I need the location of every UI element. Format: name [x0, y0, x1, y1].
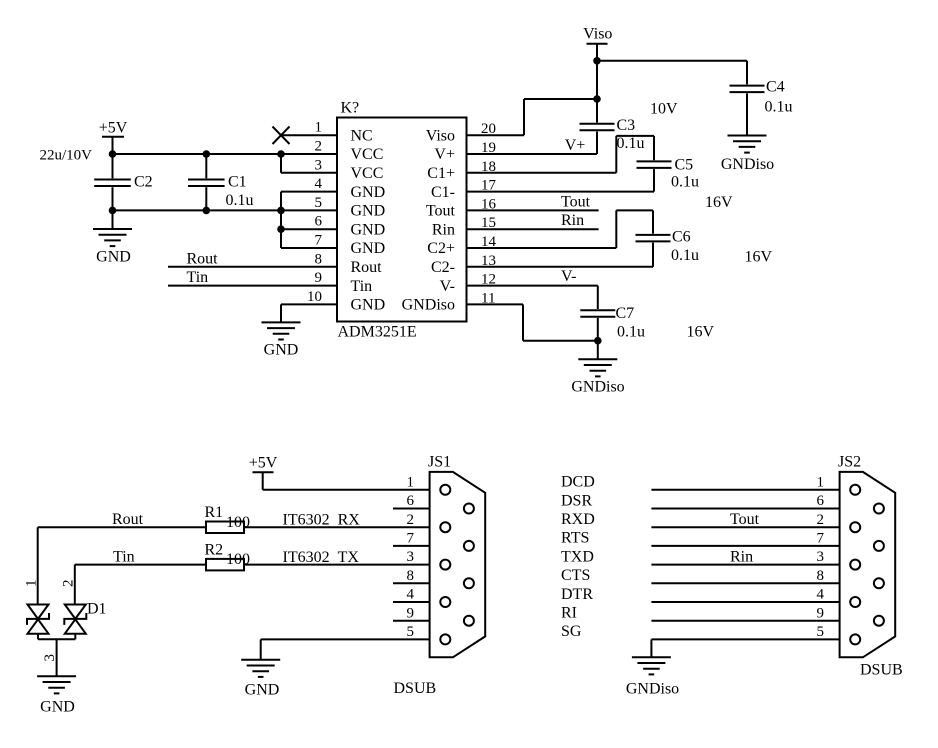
capacitor C6: [636, 210, 700, 266]
wire JS1 pin9 stub: [393, 620, 430, 622]
svg-text:Rout: Rout: [351, 259, 383, 276]
wire pin1: [281, 134, 337, 136]
svg-text:1: 1: [23, 580, 39, 588]
svg-text:6: 6: [315, 214, 323, 230]
svg-text:10V: 10V: [650, 101, 678, 118]
svg-text:2: 2: [315, 139, 323, 155]
svg-text:7: 7: [315, 233, 323, 249]
ground GNDiso (under C7): [571, 359, 624, 395]
svg-text:R1: R1: [205, 504, 224, 521]
node junction Viso: [593, 57, 601, 65]
power +5V (JS1): [249, 454, 278, 490]
svg-text:0.1u: 0.1u: [617, 323, 645, 340]
wire pin11 drop: [522, 304, 524, 340]
node junction pin5 rail: [277, 207, 285, 215]
wire GND bottom rail: [113, 209, 282, 211]
pin circle JS2-5: [850, 634, 860, 644]
node junction C2 top: [109, 150, 117, 158]
svg-text:Rin: Rin: [432, 221, 455, 238]
svg-text:3: 3: [42, 654, 58, 662]
resistor R2: [205, 542, 251, 571]
wire VCC top rail: [113, 153, 282, 155]
svg-text:ADM3251E: ADM3251E: [338, 324, 417, 341]
node junction C1 bottom: [203, 207, 211, 215]
svg-text:GND: GND: [40, 698, 75, 715]
pin circle JS2-6: [874, 504, 884, 514]
wire pin10: [281, 303, 337, 305]
power +5V (top left): [99, 120, 128, 155]
wire CTS to JS2 pin8: [651, 582, 839, 584]
svg-text:GND: GND: [245, 682, 280, 699]
node junction C2 bottom: [109, 207, 117, 215]
svg-text:VCC: VCC: [351, 165, 384, 182]
svg-text:DSR: DSR: [561, 492, 592, 509]
svg-text:DSUB: DSUB: [860, 662, 903, 679]
ground GNDiso (JS2): [626, 657, 679, 697]
wire pin4: [281, 191, 337, 193]
wire SG drop to ground: [650, 639, 652, 657]
op-amp U1 : IC body K? ADM3251E: [337, 118, 467, 322]
pin circle JS2-2: [850, 522, 860, 532]
svg-text:GND: GND: [351, 297, 386, 314]
wire pin13 C2-: [467, 266, 654, 268]
svg-text:3: 3: [817, 549, 825, 565]
svg-text:GND: GND: [264, 342, 299, 359]
node junction C7 bottom: [594, 337, 602, 345]
svg-text:C6: C6: [672, 228, 691, 245]
wire pin14 C2+: [467, 247, 617, 249]
power Viso: [583, 26, 612, 61]
svg-text:GND: GND: [96, 249, 131, 266]
svg-text:Viso: Viso: [426, 127, 455, 144]
wire Tin drop to D1: [74, 565, 76, 605]
wire JS1 pin7 stub: [393, 545, 430, 547]
pin circle JS1-7: [464, 541, 474, 551]
wire RXD to JS2 pin2: [651, 526, 839, 528]
svg-text:RXD: RXD: [561, 511, 595, 528]
wire pin7: [281, 247, 337, 249]
wire C7 to ground: [597, 341, 599, 360]
wire Rout drop to D1: [37, 527, 39, 604]
svg-text:+5V: +5V: [99, 120, 128, 137]
svg-text:0.1u: 0.1u: [226, 192, 254, 209]
svg-text:5: 5: [817, 624, 825, 640]
svg-text:16V: 16V: [745, 249, 773, 266]
svg-text:RTS: RTS: [561, 530, 589, 547]
svg-text:JS2: JS2: [838, 454, 861, 471]
svg-text:Rin: Rin: [730, 548, 753, 565]
svg-text:GND: GND: [351, 221, 386, 238]
svg-text:Rout: Rout: [112, 511, 144, 528]
wire pin4-pin7 bus: [280, 192, 282, 248]
svg-text:4: 4: [817, 587, 825, 603]
pin circle JS2-9: [874, 616, 884, 626]
svg-text:1: 1: [407, 474, 415, 490]
diode D1b TVS: [64, 605, 86, 634]
svg-text:GNDiso: GNDiso: [402, 297, 455, 314]
pin circle JS2-3: [850, 560, 860, 570]
wire pin15 Rin: [467, 228, 599, 230]
svg-text:C3: C3: [617, 117, 636, 134]
wire pin19 V+: [467, 153, 598, 155]
ground GND (under chip): [262, 322, 301, 358]
ground GND (under D1): [37, 676, 76, 715]
resistor R1: [205, 504, 251, 533]
pin circle JS1-6: [464, 504, 474, 514]
pin circle JS2-1: [850, 485, 860, 495]
wire to C5 top: [616, 135, 654, 137]
svg-text:8: 8: [817, 568, 825, 584]
svg-text:Tout: Tout: [561, 194, 591, 211]
wire SG to JS2 pin5: [651, 638, 839, 640]
wire D1 common: [38, 638, 75, 640]
svg-text:5: 5: [407, 624, 415, 640]
svg-text:22u/10V: 22u/10V: [40, 148, 93, 164]
wire to C6 top: [616, 209, 653, 211]
ground GND (JS1): [241, 660, 280, 699]
pin circle JS1-1: [440, 485, 450, 495]
svg-text:0.1u: 0.1u: [671, 174, 699, 191]
wire pin11 GNDiso: [467, 303, 524, 305]
svg-text:1: 1: [817, 474, 825, 490]
svg-text:K?: K?: [341, 100, 360, 117]
svg-text:4: 4: [407, 587, 415, 603]
wire DCD to JS2 pin1: [651, 489, 839, 491]
svg-text:6: 6: [817, 493, 825, 509]
svg-text:2: 2: [60, 580, 76, 588]
svg-text:V-: V-: [440, 278, 455, 295]
svg-text:V-: V-: [561, 268, 576, 285]
wire pin14 riser: [615, 210, 617, 248]
wire pin9 Tin: [168, 285, 337, 287]
wire pin20 to Viso node: [524, 98, 597, 100]
svg-text:9: 9: [315, 270, 323, 286]
no-connect X pin 1: [273, 127, 290, 145]
wire pin11 to C7 bottom: [523, 340, 598, 342]
svg-text:TXD: TXD: [561, 548, 594, 565]
svg-text:Tout: Tout: [426, 203, 456, 220]
svg-text:+5V: +5V: [249, 454, 278, 471]
svg-text:R2: R2: [205, 542, 224, 559]
pin circle JS2-4: [850, 597, 860, 607]
wire TXD to JS2 pin3: [651, 564, 839, 566]
svg-text:5: 5: [315, 195, 323, 211]
wire drop to ground: [260, 639, 262, 659]
svg-text:Rout: Rout: [187, 250, 219, 267]
svg-text:Tin: Tin: [351, 278, 373, 295]
wire RTS to JS2 pin7: [651, 545, 839, 547]
node junction pin6: [277, 225, 285, 233]
svg-text:GND: GND: [351, 203, 386, 220]
svg-text:8: 8: [407, 568, 415, 584]
wire Viso to C4: [597, 60, 747, 62]
wire pin20: [467, 134, 525, 136]
svg-text:Tin: Tin: [187, 269, 209, 286]
wire pin6: [281, 228, 337, 230]
svg-text:IT6302 TX: IT6302 TX: [283, 549, 360, 566]
diode D1a TVS: [27, 605, 49, 634]
svg-text:C4: C4: [766, 78, 785, 95]
wire GND to JS1 pin5: [261, 638, 430, 640]
svg-text:7: 7: [407, 531, 415, 547]
svg-text:IT6302 RX: IT6302 RX: [283, 512, 361, 529]
pin circle JS1-4: [440, 597, 450, 607]
svg-text:VCC: VCC: [351, 146, 384, 163]
svg-text:GNDiso: GNDiso: [571, 378, 624, 395]
wire pin16 Tout: [467, 209, 599, 211]
pin circle JS1-2: [440, 522, 450, 532]
svg-text:C5: C5: [675, 156, 694, 173]
svg-text:C7: C7: [616, 305, 635, 322]
svg-text:2: 2: [817, 512, 825, 528]
wire pin18 C1+: [467, 172, 617, 174]
wire D1b bottom: [74, 634, 76, 640]
capacitor C7: [580, 286, 645, 341]
svg-text:C2-: C2-: [431, 259, 455, 276]
pin circle JS1-9: [464, 616, 474, 626]
capacitor C4: [730, 61, 793, 136]
svg-text:D1: D1: [87, 601, 107, 618]
wire pin12 V-: [467, 285, 598, 287]
wire DTR to JS2 pin4: [651, 601, 839, 603]
svg-text:GND: GND: [351, 240, 386, 257]
svg-text:Viso: Viso: [583, 26, 612, 43]
svg-text:7: 7: [817, 531, 825, 547]
svg-text:C2+: C2+: [427, 240, 455, 257]
wire DSR to JS2 pin6: [651, 508, 839, 510]
svg-text:100: 100: [226, 551, 250, 568]
svg-text:9: 9: [407, 605, 415, 621]
svg-text:C1+: C1+: [427, 165, 455, 182]
wire R2 to JS1 pin3: [244, 564, 430, 566]
svg-text:Tout: Tout: [730, 511, 760, 528]
wire pin18 riser: [615, 136, 617, 173]
wire pin20 riser: [523, 99, 525, 135]
svg-text:RI: RI: [561, 605, 577, 622]
wire Viso down to C3: [596, 61, 598, 123]
svg-text:16V: 16V: [687, 323, 715, 340]
svg-text:C1: C1: [228, 174, 247, 191]
svg-text:100: 100: [226, 514, 250, 531]
svg-text:2: 2: [407, 512, 415, 528]
svg-text:GND: GND: [351, 184, 386, 201]
wire pin2-pin3 bus: [280, 154, 282, 173]
connector JS2 DSUB outline: [840, 472, 896, 657]
svg-text:4: 4: [315, 176, 323, 192]
wire pin10 to ground: [280, 304, 282, 322]
svg-text:0.1u: 0.1u: [765, 98, 793, 115]
svg-text:JS1: JS1: [428, 454, 451, 471]
svg-text:Tin: Tin: [113, 549, 135, 566]
capacitor C1: [188, 154, 254, 210]
svg-text:DCD: DCD: [561, 474, 595, 491]
wire Rout to R1: [38, 526, 206, 528]
capacitor C5: [637, 136, 700, 192]
pin circle JS1-8: [464, 578, 474, 588]
node junction pin2: [277, 150, 285, 158]
svg-text:Rin: Rin: [561, 212, 584, 229]
pin circle JS1-5: [440, 634, 450, 644]
svg-text:C2: C2: [134, 174, 153, 191]
ground GNDiso (under C4): [721, 136, 774, 174]
svg-text:DSUB: DSUB: [394, 680, 437, 697]
svg-text:6: 6: [407, 493, 415, 509]
svg-text:GNDiso: GNDiso: [721, 156, 774, 173]
wire pin17 C1-: [467, 191, 655, 193]
svg-text:SG: SG: [561, 623, 582, 640]
svg-text:3: 3: [315, 157, 323, 173]
svg-text:GNDiso: GNDiso: [626, 680, 679, 697]
node junction pin20 branch: [593, 95, 601, 103]
wire +5V to JS1 pin1: [263, 489, 430, 491]
svg-text:V+: V+: [434, 146, 455, 163]
pin circle JS1-3: [440, 560, 450, 570]
ground GND (under C2): [93, 210, 132, 265]
wire D1a bottom: [37, 634, 39, 640]
wire pin5: [281, 209, 337, 211]
pin circle JS2-7: [874, 541, 884, 551]
svg-text:9: 9: [817, 605, 825, 621]
capacitor C2: [94, 154, 152, 210]
pin circle JS2-8: [874, 578, 884, 588]
svg-text:V+: V+: [565, 137, 586, 154]
svg-text:16V: 16V: [705, 194, 733, 211]
connector JS1 DSUB outline: [430, 472, 486, 657]
wire pin8 Rout: [168, 266, 337, 268]
wire JS1 pin6 stub: [393, 508, 430, 510]
svg-text:NC: NC: [351, 127, 373, 144]
svg-text:C1-: C1-: [431, 184, 455, 201]
wire JS1 pin8 stub: [393, 582, 430, 584]
svg-text:10: 10: [307, 289, 322, 305]
svg-text:0.1u: 0.1u: [671, 247, 699, 264]
wire RI to JS2 pin9: [651, 620, 839, 622]
wire JS1 pin4 stub: [393, 601, 430, 603]
svg-text:0.1u: 0.1u: [617, 135, 645, 152]
wire Tin to R2: [75, 564, 206, 566]
svg-text:8: 8: [315, 251, 323, 267]
svg-text:DTR: DTR: [561, 586, 593, 603]
svg-text:1: 1: [315, 120, 323, 136]
svg-text:3: 3: [407, 549, 415, 565]
wire pin3: [281, 172, 337, 174]
node junction C1 top: [203, 150, 211, 158]
svg-text:CTS: CTS: [561, 567, 590, 584]
wire pin2: [281, 153, 337, 155]
wire R1 to JS1 pin2: [244, 526, 430, 528]
wire D1 pin3 to ground: [56, 639, 58, 676]
capacitor C3: [580, 117, 645, 154]
